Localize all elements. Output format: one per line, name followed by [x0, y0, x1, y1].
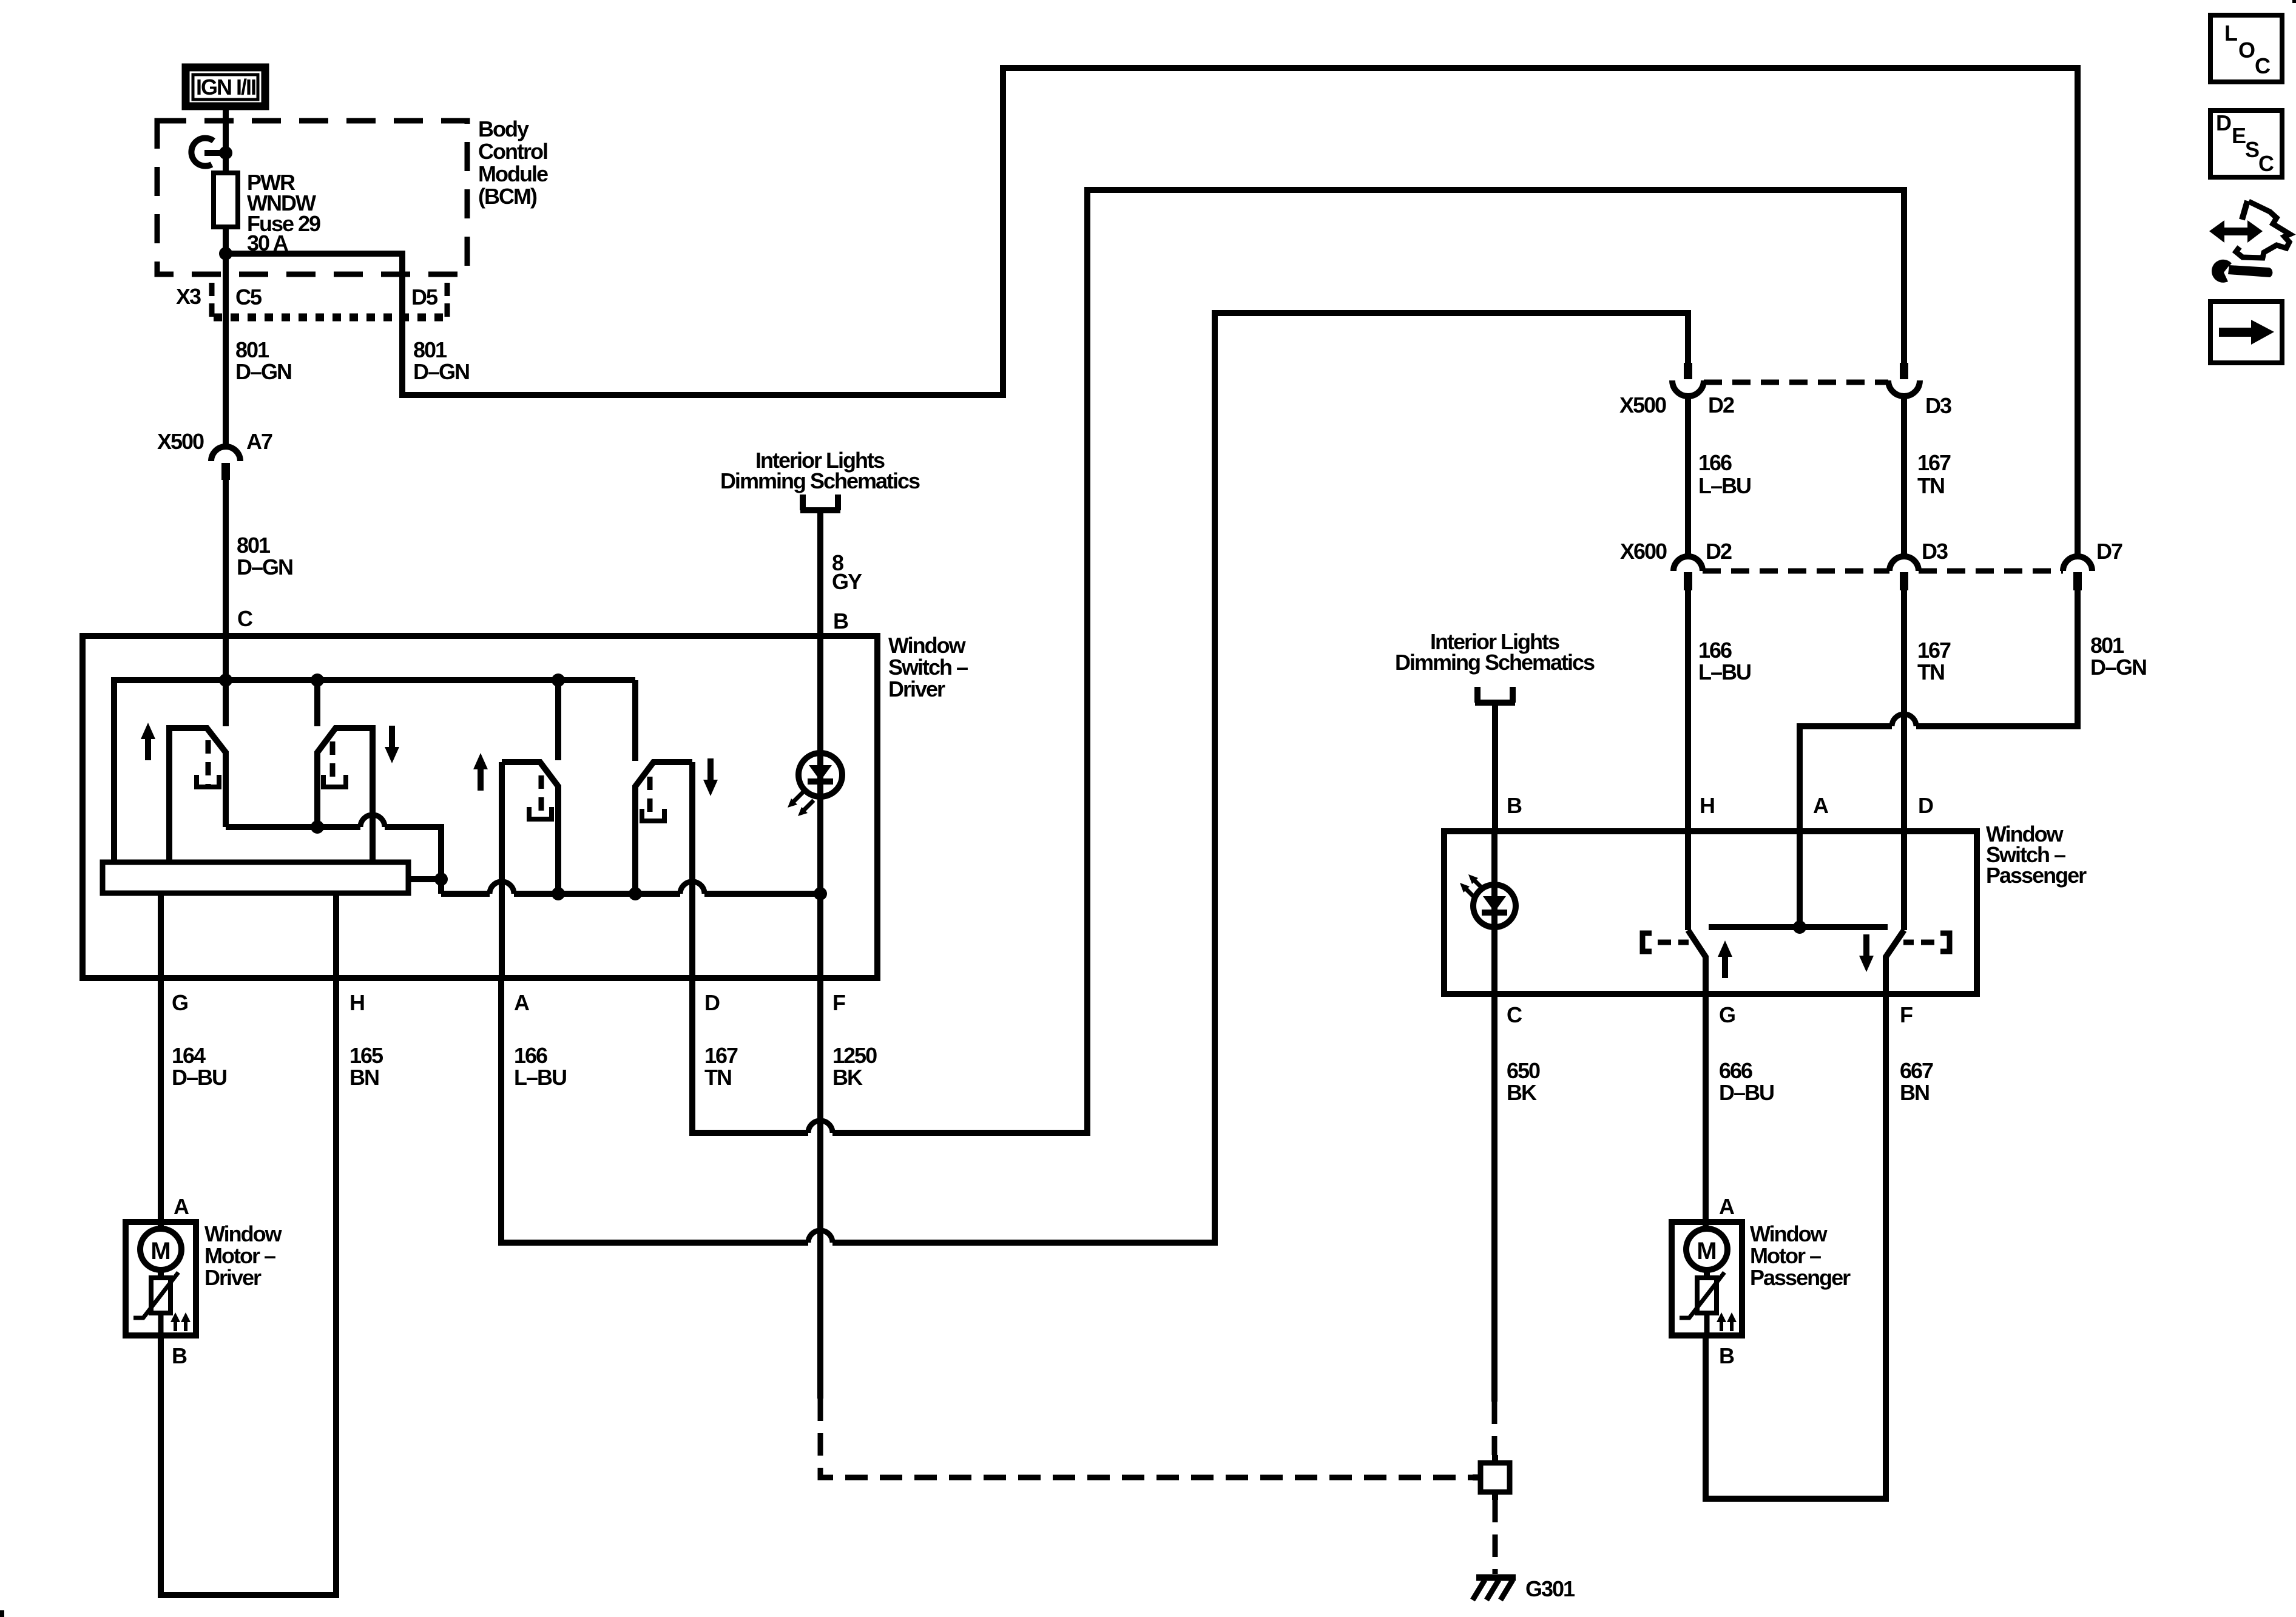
wire 801 D-GN from A7 to driver switch pin C: [223, 480, 229, 636]
dashed connector line X500: [1704, 380, 1888, 385]
driver switch supply bus: [114, 680, 635, 862]
wire 167 X600 to passenger D: [1901, 590, 1907, 930]
svg-text:B: B: [1507, 793, 1522, 818]
rocker bar: [103, 862, 408, 893]
connector X500 D2: [1672, 363, 1704, 396]
svg-text:Window: Window: [888, 633, 967, 658]
svg-text:D–BU: D–BU: [172, 1065, 226, 1090]
passenger switch blade D-F: [1886, 930, 1904, 994]
wire label 165 BN: [349, 1043, 383, 1090]
svg-text:A7: A7: [246, 429, 272, 454]
svg-text:164: 164: [172, 1043, 206, 1068]
svg-text:B: B: [833, 609, 848, 633]
svg-text:A: A: [1813, 793, 1829, 818]
wire 667 BN pin F to motor B loop: [1706, 994, 1886, 1499]
wire 8 GY from dimming to driver switch pin B: [817, 510, 823, 636]
wire 1250 BK pin F solid part: [817, 978, 823, 1399]
svg-text:Window: Window: [1750, 1221, 1828, 1246]
stray mark top-right: [2292, 0, 2296, 3]
Window Motor - Driver: [126, 1222, 196, 1335]
SW1 up arrow: [141, 723, 155, 760]
svg-text:S: S: [2245, 137, 2259, 162]
wire IGN feed from tag into BCM: [223, 107, 229, 173]
svg-text:BN: BN: [349, 1065, 379, 1090]
wire label 167 TN (upper): [1917, 450, 1951, 498]
junction at fuse output: [219, 247, 232, 260]
SW2 contact dashes: [330, 741, 336, 785]
switch SW1 driver window up blade: [169, 728, 226, 862]
switch SW4 passenger window down blade: [635, 762, 692, 894]
svg-text:D2: D2: [1706, 539, 1732, 564]
legend icon DESC: [2210, 110, 2282, 177]
svg-text:Body: Body: [478, 116, 529, 141]
SW2 contact cup: [323, 775, 346, 787]
svg-text:167: 167: [1917, 638, 1951, 663]
svg-text:Dimming Schematics: Dimming Schematics: [720, 468, 920, 493]
wire 801 from fuse to connector X500 A7: [223, 227, 229, 448]
svg-text:TN: TN: [1917, 473, 1944, 498]
svg-text:666: 666: [1719, 1058, 1752, 1083]
wire 165 BN pin H to motor B loop: [161, 978, 336, 1595]
svg-text:167: 167: [1917, 450, 1951, 475]
wire 801 D7 to passenger A: [1800, 590, 2078, 927]
dashed connector line X600 right: [1919, 569, 2063, 574]
svg-text:TN: TN: [704, 1065, 731, 1090]
svg-text:L–BU: L–BU: [1698, 660, 1751, 684]
LED driver illumination: [788, 753, 842, 816]
SW1 contact cup: [197, 775, 219, 787]
passenger switch common bar: [1709, 924, 1888, 930]
passenger switch blade H-G: [1688, 930, 1706, 994]
dashed connector line X600 left: [1703, 569, 1889, 574]
svg-text:M: M: [150, 1238, 171, 1264]
passenger up arrow: [1718, 940, 1732, 978]
Window Switch - Passenger box: [1444, 831, 1977, 994]
svg-text:D: D: [1918, 793, 1933, 818]
wire pole switch 3: [555, 680, 561, 760]
label Window Motor - Driver: [204, 1221, 283, 1290]
legend icon vehicle with wrench: [2209, 201, 2290, 283]
svg-text:X500: X500: [1619, 393, 1666, 417]
svg-text:H: H: [349, 990, 364, 1015]
svg-text:165: 165: [349, 1043, 383, 1068]
svg-text:G: G: [1719, 1002, 1735, 1027]
wire label 801 D-GN (left): [235, 337, 291, 384]
svg-text:E: E: [2232, 123, 2246, 148]
svg-text:A: A: [514, 990, 530, 1015]
svg-text:D–GN: D–GN: [2090, 655, 2146, 680]
SW4 down arrow: [703, 758, 718, 796]
svg-text:TN: TN: [1917, 660, 1944, 684]
connector X500 A7: [211, 447, 240, 480]
svg-text:O: O: [2238, 38, 2255, 62]
passenger switch left bracket: [1643, 933, 1689, 951]
svg-text:D: D: [704, 990, 720, 1015]
svg-text:A: A: [174, 1194, 189, 1219]
wire 666 D-BU pin G to motor: [1703, 994, 1709, 1229]
BCM label: [478, 116, 548, 209]
svg-text:D–BU: D–BU: [1719, 1080, 1774, 1105]
Window Switch - Driver box: [83, 636, 877, 978]
SW2 down arrow: [385, 726, 399, 763]
switch SW3 passenger window up blade: [502, 762, 558, 894]
connector X600 D7: [2063, 556, 2092, 590]
wire LED passenger B to C: [1491, 831, 1497, 994]
svg-text:M: M: [1697, 1238, 1717, 1264]
svg-text:C: C: [2255, 53, 2271, 78]
wire pole switch 1: [223, 636, 229, 726]
wire label 164 D-BU: [172, 1043, 226, 1090]
connector X3 row: [212, 283, 447, 323]
SW3 contact cup: [529, 807, 552, 819]
label Window Motor - Passenger: [1750, 1221, 1851, 1290]
svg-text:Passenger: Passenger: [1750, 1265, 1851, 1290]
svg-text:650: 650: [1507, 1058, 1540, 1083]
wire pin H to bar: [333, 893, 339, 978]
svg-text:X500: X500: [157, 429, 204, 454]
wire pole switch 4: [632, 680, 638, 761]
svg-text:C: C: [1507, 1002, 1522, 1027]
ground G301: [1473, 1578, 1516, 1600]
svg-text:1250: 1250: [832, 1043, 877, 1068]
SW3 up arrow: [473, 753, 488, 791]
svg-text:801: 801: [235, 337, 269, 362]
Body Control Module (BCM) dashed box: [157, 121, 467, 274]
connector X600 D2: [1673, 556, 1703, 590]
svg-text:Switch –: Switch –: [888, 655, 968, 680]
passenger switch right bracket: [1903, 933, 1950, 951]
legend icon LOC: [2210, 15, 2282, 82]
wire label 801 D-GN (below A7): [237, 533, 292, 579]
off-page reference Interior Lights Dimming Schematics (passenger): [1395, 629, 1595, 703]
wire dashed splice to ground: [1493, 1500, 1498, 1574]
wire label 667 BN: [1900, 1058, 1933, 1105]
wire LED branch B to F: [817, 636, 823, 978]
wire label 801 D-GN (lower): [2090, 633, 2146, 680]
passenger down arrow: [1859, 934, 1874, 972]
svg-text:D–GN: D–GN: [413, 359, 469, 384]
svg-text:D2: D2: [1708, 393, 1734, 417]
svg-text:Driver: Driver: [888, 677, 945, 701]
fuse PWR WNDW Fuse 29 30 A: [214, 173, 238, 227]
svg-text:BK: BK: [832, 1065, 863, 1090]
wire 1250 BK dashed to splice: [820, 1399, 1473, 1477]
link wire lower to LED ground: [441, 882, 820, 894]
svg-text:Window: Window: [204, 1221, 283, 1246]
svg-text:A: A: [1719, 1194, 1735, 1219]
svg-text:166: 166: [1698, 638, 1732, 663]
svg-text:F: F: [1900, 1002, 1913, 1027]
wire 8 GY to passenger pin B: [1492, 703, 1498, 831]
node bus-sw3: [552, 673, 565, 687]
wire 167 TN pin D to X500 D3: [692, 190, 1904, 1133]
svg-text:IGN I/II: IGN I/II: [196, 75, 255, 100]
svg-text:Control: Control: [478, 139, 547, 164]
wire label 1250 BK: [832, 1043, 877, 1090]
off-page reference Interior Lights Dimming Schematics (driver): [720, 448, 920, 510]
wire 164 D-BU pin G to motor A: [158, 978, 164, 1229]
svg-text:801: 801: [2090, 633, 2124, 658]
svg-text:(BCM): (BCM): [478, 184, 537, 209]
splice S301 box: [1473, 1455, 1510, 1500]
svg-text:D: D: [2216, 110, 2231, 135]
svg-text:Passenger: Passenger: [1986, 863, 2087, 888]
wire label 167 TN: [704, 1043, 738, 1090]
svg-text:B: B: [172, 1343, 187, 1368]
SW1 contact dashes: [206, 740, 211, 785]
bar stub: [408, 876, 441, 882]
svg-text:Dimming Schematics: Dimming Schematics: [1395, 650, 1595, 675]
wire pin G to bar: [158, 893, 164, 978]
power tag IGN I/II: [186, 67, 265, 106]
wire label 801 D-GN (right): [413, 337, 469, 384]
wire 650 BK solid part: [1491, 994, 1497, 1402]
node bus-sw2: [311, 673, 324, 687]
label Window Switch - Passenger: [1986, 822, 2087, 888]
svg-text:G: G: [172, 990, 187, 1015]
svg-text:GY: GY: [832, 569, 862, 594]
node bar-A: [1793, 920, 1806, 934]
svg-text:801: 801: [413, 337, 447, 362]
SW4 contact dashes: [647, 777, 653, 819]
label Window Switch - Driver: [888, 633, 968, 701]
SW4 contact cup: [642, 809, 664, 821]
SW3 pin A vertical: [499, 762, 505, 978]
svg-text:D–GN: D–GN: [237, 555, 292, 579]
svg-text:Module: Module: [478, 161, 548, 186]
svg-text:Driver: Driver: [204, 1265, 262, 1290]
connector X500 D3: [1888, 363, 1920, 396]
svg-text:BN: BN: [1900, 1080, 1929, 1105]
node bar stub: [434, 873, 448, 886]
svg-text:L–BU: L–BU: [514, 1065, 566, 1090]
svg-text:B: B: [1719, 1343, 1734, 1368]
svg-text:166: 166: [514, 1043, 547, 1068]
connector X600 D3: [1889, 556, 1919, 590]
svg-text:C: C: [2258, 151, 2274, 176]
wire label 166 L-BU (upper): [1698, 450, 1751, 498]
node link2-sw3: [552, 887, 565, 900]
wire 801 D-GN branch through BCM pin D5 to top right: [226, 68, 2078, 558]
SW3 contact dashes: [539, 775, 544, 817]
svg-text:Motor –: Motor –: [1750, 1243, 1821, 1268]
wire label 166 L-BU: [514, 1043, 566, 1090]
wire 166 X600 to passenger H: [1685, 590, 1691, 930]
svg-text:L–BU: L–BU: [1698, 473, 1751, 498]
svg-text:BK: BK: [1507, 1080, 1537, 1105]
svg-text:C: C: [237, 606, 253, 631]
node link2-sw4: [629, 887, 642, 900]
wire 166 X500 to X600: [1685, 396, 1691, 558]
link wire sw1-sw2 to bar stub: [226, 815, 441, 894]
node link1-sw2: [311, 820, 324, 834]
svg-text:F: F: [832, 990, 845, 1015]
node bus-C: [219, 673, 232, 687]
svg-text:H: H: [1700, 793, 1714, 818]
stray mark bottom-left: [0, 1610, 4, 1617]
svg-text:G301: G301: [1525, 1576, 1575, 1601]
fuse label: [247, 170, 320, 255]
svg-text:D3: D3: [1925, 393, 1951, 418]
svg-text:801: 801: [237, 533, 271, 558]
svg-text:D3: D3: [1922, 539, 1948, 564]
wire 166 L-BU pin A to X500 D2: [501, 313, 1688, 1243]
wire label 650 BK: [1507, 1058, 1540, 1105]
svg-text:166: 166: [1698, 450, 1732, 475]
wire 167 X500 to X600: [1901, 396, 1907, 558]
ignition switch symbol: [191, 138, 232, 166]
switch SW2 driver window down blade: [317, 728, 373, 862]
svg-text:X600: X600: [1620, 539, 1667, 564]
SW4 pin D vertical: [689, 762, 695, 978]
svg-text:Motor –: Motor –: [204, 1243, 275, 1268]
wire label 166 L-BU (lower): [1698, 638, 1751, 684]
LED passenger illumination: [1460, 874, 1516, 927]
Window Motor - Passenger: [1672, 1222, 1742, 1335]
svg-text:L: L: [2224, 21, 2237, 46]
svg-text:667: 667: [1900, 1058, 1933, 1083]
wire pole switch 2: [314, 680, 320, 726]
wire label 167 TN (lower): [1917, 638, 1951, 684]
node link2-F: [814, 887, 827, 900]
legend icon arrow: [2210, 302, 2282, 363]
wire 650 BK dashed to splice: [1492, 1402, 1497, 1455]
svg-text:D5: D5: [411, 285, 438, 309]
wire label 666 D-BU: [1719, 1058, 1774, 1105]
svg-text:167: 167: [704, 1043, 738, 1068]
svg-text:D7: D7: [2096, 539, 2122, 564]
svg-text:X3: X3: [176, 284, 201, 309]
wire label 8 GY: [832, 550, 862, 594]
svg-text:D–GN: D–GN: [235, 359, 291, 384]
label X500 A7: [157, 429, 272, 454]
svg-text:C5: C5: [235, 285, 262, 309]
